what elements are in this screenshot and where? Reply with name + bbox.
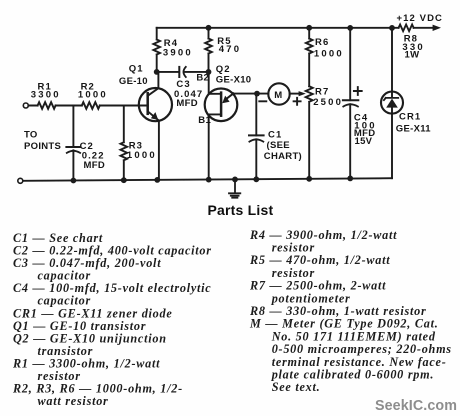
svg-text:R1 — 3300-ohm, 1/2-watt: R1 — 3300-ohm, 1/2-watt	[12, 357, 160, 371]
svg-text:1000: 1000	[127, 150, 157, 161]
svg-text:GE-X10: GE-X10	[216, 75, 252, 86]
junction node bottom ground	[232, 177, 238, 183]
junction node bottom C2	[71, 178, 77, 184]
zener diode CR1	[381, 92, 403, 114]
svg-text:B2: B2	[196, 72, 209, 83]
junction node top rail R5	[206, 25, 212, 31]
svg-text:(SEE: (SEE	[267, 140, 290, 151]
junction node bottom Q1	[154, 177, 160, 183]
svg-text:Q1: Q1	[129, 64, 144, 75]
junction node C3 B2	[206, 69, 212, 75]
svg-text:TO: TO	[24, 129, 38, 140]
junction node top rail CR1	[389, 25, 395, 31]
resistor R4	[153, 28, 160, 72]
svg-text:GE-10: GE-10	[119, 76, 148, 87]
C4 plus sign	[354, 87, 362, 95]
junction node bottom R7	[306, 176, 312, 182]
svg-text:R6: R6	[315, 37, 329, 48]
svg-text:B1: B1	[198, 115, 211, 126]
capacitor C3	[178, 67, 180, 77]
wire top rail	[157, 27, 434, 29]
resistor R6	[306, 28, 313, 87]
svg-text:watt resistor: watt resistor	[38, 394, 109, 408]
junction node emitter C1	[254, 91, 260, 97]
wire input to Q1 base	[28, 105, 147, 107]
resistor R2	[82, 102, 100, 109]
transistor Q1	[139, 88, 172, 121]
wire Q2 emitter to meter	[233, 93, 268, 95]
svg-text:CR1: CR1	[399, 111, 421, 122]
svg-text:3900: 3900	[163, 47, 193, 58]
junction node bottom R3	[121, 177, 127, 183]
svg-text:1000: 1000	[314, 49, 344, 60]
resistor R5	[205, 28, 212, 72]
meter plus sign	[294, 98, 301, 105]
svg-text:SeekIC.com: SeekIC.com	[375, 398, 457, 414]
svg-text:1000: 1000	[78, 89, 108, 100]
transistor Q2 unijunction	[205, 89, 238, 122]
resistor R8	[399, 25, 414, 32]
svg-text:Parts List: Parts List	[208, 202, 274, 218]
+12 VDC supply arrow	[433, 25, 441, 31]
svg-text:R7: R7	[315, 86, 329, 97]
capacitor C2	[72, 106, 74, 148]
wire meter to R7 wiper	[290, 93, 300, 95]
capacitor C1	[255, 94, 257, 136]
terminal input bottom	[18, 178, 23, 183]
junction node bottom C1	[253, 176, 259, 182]
svg-text:POINTS: POINTS	[24, 141, 61, 152]
svg-text:See text.: See text.	[272, 380, 321, 394]
svg-text:GE-X11: GE-X11	[396, 123, 431, 134]
svg-text:M: M	[274, 90, 283, 101]
svg-text:C1: C1	[268, 129, 282, 140]
svg-text:MFD: MFD	[84, 160, 105, 171]
terminal input top	[23, 103, 28, 108]
svg-text:R5 — 470-ohm, 1/2-watt: R5 — 470-ohm, 1/2-watt	[249, 253, 390, 267]
svg-text:1W: 1W	[405, 49, 420, 60]
junction node bottom Q2	[206, 177, 212, 183]
ground	[229, 179, 240, 197]
svg-text:470: 470	[219, 44, 241, 55]
svg-text:2500: 2500	[313, 97, 343, 108]
svg-text:Q2: Q2	[216, 64, 231, 75]
resistor R3	[121, 106, 128, 181]
svg-text:MFD: MFD	[176, 98, 197, 109]
junction node bottom C4	[347, 176, 353, 182]
junction node top rail C4	[347, 25, 353, 31]
wire bottom rail	[23, 178, 392, 181]
junction node R4 C3	[154, 69, 160, 75]
wire node between R4 and R5	[157, 71, 209, 73]
resistor R1	[38, 102, 56, 109]
svg-text:CHART): CHART)	[264, 151, 302, 162]
svg-text:3300: 3300	[31, 89, 61, 100]
meter minus sign	[259, 100, 266, 102]
meter M	[268, 83, 289, 104]
junction node top rail R6	[306, 25, 312, 31]
potentiometer R7	[306, 86, 313, 178]
svg-text:15V: 15V	[355, 136, 373, 147]
svg-text:+12 VDC: +12 VDC	[397, 13, 444, 24]
capacitor C4	[349, 28, 351, 100]
